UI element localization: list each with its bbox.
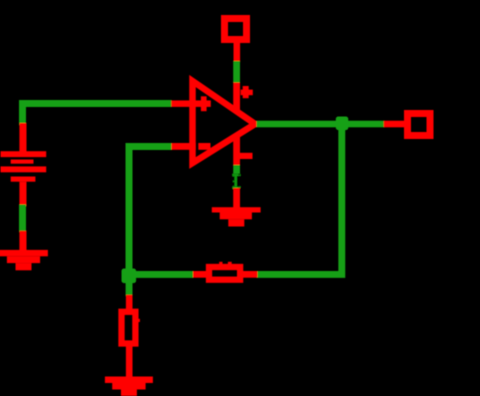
U1 V+ supply pin <box>233 82 240 112</box>
U1 V- supply pin <box>233 134 240 166</box>
op-amp U1 <box>171 81 255 166</box>
U1 triangle body <box>193 81 256 163</box>
junction J2 (feedback node) <box>122 269 137 284</box>
U1 inverting input pin <box>171 143 195 150</box>
port P1 (top, V+ supply) <box>225 19 247 63</box>
U1 minus glyph at inverting input <box>198 143 210 150</box>
value label of R2 <box>219 262 232 265</box>
resistor R1 (vertical, to ground) <box>122 295 140 378</box>
wire W6: junction J1 down and left to resistor R2 <box>257 127 342 274</box>
ground GND2 (op-amp V-) <box>212 188 261 227</box>
U1 plus glyph at V+ pin <box>241 90 253 96</box>
port P2 (right, output) <box>384 114 430 136</box>
wire W4: op-amp V- pin to ground GND2 <box>233 165 240 190</box>
net label on wire W4 <box>228 174 244 190</box>
wire W8: junction J2 up to op-amp inverting input <box>129 147 172 273</box>
resistor R2 (feedback, horizontal) <box>192 267 257 280</box>
U1 non-inverting input pin <box>171 100 211 107</box>
ground GND3 (below R1) <box>105 377 153 396</box>
wire W5: op-amp output to port P2 <box>257 121 386 128</box>
U1 minus glyph at V- pin <box>239 153 253 159</box>
wire W9: junction J2 down to resistor R1 <box>126 281 133 296</box>
ground GND1 (below battery) <box>0 231 48 271</box>
battery V1 <box>1 123 47 206</box>
wire W3: port P1 to op-amp V+ pin <box>233 61 240 83</box>
wire W7: R2 left lead to junction J2 <box>129 271 193 278</box>
wire W1: battery + up and right to op-amp non-inverting input <box>23 104 172 126</box>
wire W2: battery - to ground GND1 <box>19 205 26 233</box>
junction J1 (output node) <box>336 117 349 131</box>
U1 plus glyph at non-inverting input <box>201 96 207 111</box>
